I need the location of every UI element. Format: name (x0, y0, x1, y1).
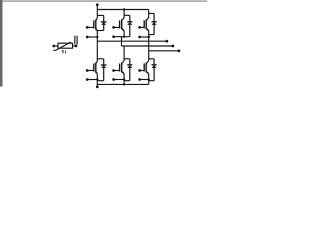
wire gate line G6 (140, 70, 145, 72)
wire emitter vertical T2 (123, 31, 125, 37)
node junction aux/phase W (148, 36, 150, 38)
node P terminal dot (96, 3, 99, 6)
wire emitter-diode bottom connect 6 (149, 80, 154, 82)
wire collector riser T6 (bottom IGBT 3) (148, 51, 150, 61)
node gate terminal G1 (86, 26, 89, 29)
node output terminal V (172, 45, 175, 48)
wire diode top connect D3 (149, 12, 154, 14)
node output terminal W (178, 49, 181, 52)
node aux emitter terminal E6 (138, 78, 141, 81)
wire diode top connect D2 (124, 14, 130, 16)
wire emitter-diode bottom connect 5 (124, 80, 130, 82)
wire aux/emitter/diode merged line 2 (114, 36, 130, 38)
node gate terminal G2 (112, 26, 115, 29)
transistor T6 (bottom IGBT 3) (144, 60, 149, 74)
wire phase U output line (97, 40, 167, 42)
node gate terminal G4 (86, 69, 89, 72)
wire thermistor right lead (73, 45, 77, 47)
wire gate line G5 (114, 70, 120, 72)
node aux emitter terminal E4 (86, 78, 89, 81)
wire thermistor sense stub 2 (76, 36, 78, 45)
wire collector riser T3 (148, 10, 150, 18)
transistor T4 (bottom IGBT 1) (94, 60, 98, 74)
node thermistor terminal left (52, 45, 55, 48)
wire aux emitter line E3 (140, 36, 149, 38)
diode D4 (antiparallel bottom 1) (101, 59, 107, 81)
wire collector riser T1 (96, 10, 98, 18)
wire phase W output line (149, 50, 179, 52)
wire emitter-diode bottom connect 4 (97, 80, 103, 82)
wire diode top connect D6 (149, 58, 154, 60)
wire diode top connect D1 (97, 14, 103, 16)
node junction aux/phase U (96, 36, 98, 38)
diode D3 (antiparallel top 3) (152, 13, 157, 34)
wire gate line G2 (114, 26, 120, 28)
wire phase V drop (121, 37, 123, 46)
node N terminal dot (96, 86, 99, 89)
wire emitter vertical T4 (96, 74, 98, 87)
node junction aux E4 (96, 78, 98, 80)
wire aux emitter line E4 (87, 79, 97, 81)
node output terminal U (166, 40, 169, 43)
table border top (0, 0, 207, 1)
wire bottom DC bus N (97, 83, 148, 85)
table border left (0, 0, 3, 87)
wire emitter vertical phase U (96, 31, 98, 42)
wire diode top connect D5 (124, 58, 130, 60)
wire emitter vertical phase W (148, 31, 150, 51)
thermistor label (62, 51, 66, 54)
wire collector riser T5 (bottom IGBT 2) (123, 46, 125, 61)
node junction aux/phase V (123, 36, 125, 38)
node junction bus/collector T2 (123, 8, 125, 10)
node junction aux E5 (123, 78, 125, 80)
node gate terminal G6 (138, 69, 141, 72)
wire aux emitter line E5 (114, 79, 125, 81)
node gate terminal G3 (138, 26, 141, 29)
wire gate line G4 (87, 70, 94, 72)
wire emitter-diode bottom connect 3 (149, 34, 154, 36)
node junction bus/emitter T5 (123, 83, 125, 85)
wire collector riser T4 (bottom IGBT 1) (96, 41, 98, 60)
wire gate line G1 (87, 26, 94, 28)
node thermistor terminal right (75, 45, 78, 48)
node aux emitter terminal E5 (112, 78, 115, 81)
wire top DC bus (97, 9, 148, 11)
wire aux emitter line E1 (87, 36, 97, 38)
node aux emitter terminal E2 (112, 35, 115, 38)
wire gate line G3 (140, 26, 145, 28)
transistor T2 (top IGBT 2) (120, 17, 125, 31)
diode D6 (antiparallel bottom 3) (152, 59, 157, 81)
wire emitter vertical T5 (123, 74, 125, 84)
diode D1 (antiparallel top 1) (101, 15, 107, 30)
transistor T1 (top IGBT 1) (94, 17, 98, 31)
node junction aux E6 (148, 78, 150, 80)
wire phase V output line (122, 45, 173, 47)
wire collector riser T2 (123, 10, 125, 18)
wire emitter-diode bottom connect 1 (97, 30, 103, 32)
wire emitter vertical T6 (148, 74, 150, 84)
transistor T5 (bottom IGBT 2) (120, 60, 125, 74)
diode D5 (antiparallel bottom 2) (127, 59, 132, 81)
thermistor R1 (NTC) (53, 42, 72, 50)
wire thermistor sense stub 1 (74, 36, 76, 45)
wire diode top connect D4 (97, 58, 103, 60)
wire thermistor left lead (54, 45, 58, 47)
diode D2 (antiparallel top 2) (127, 15, 132, 36)
node gate terminal G5 (112, 69, 115, 72)
wire aux emitter line E6 (140, 79, 149, 81)
transistor T3 (top IGBT 3) (144, 17, 149, 31)
node aux emitter terminal E1 (86, 36, 89, 39)
node aux emitter terminal E3 (138, 36, 141, 39)
wire P stub (96, 5, 98, 10)
